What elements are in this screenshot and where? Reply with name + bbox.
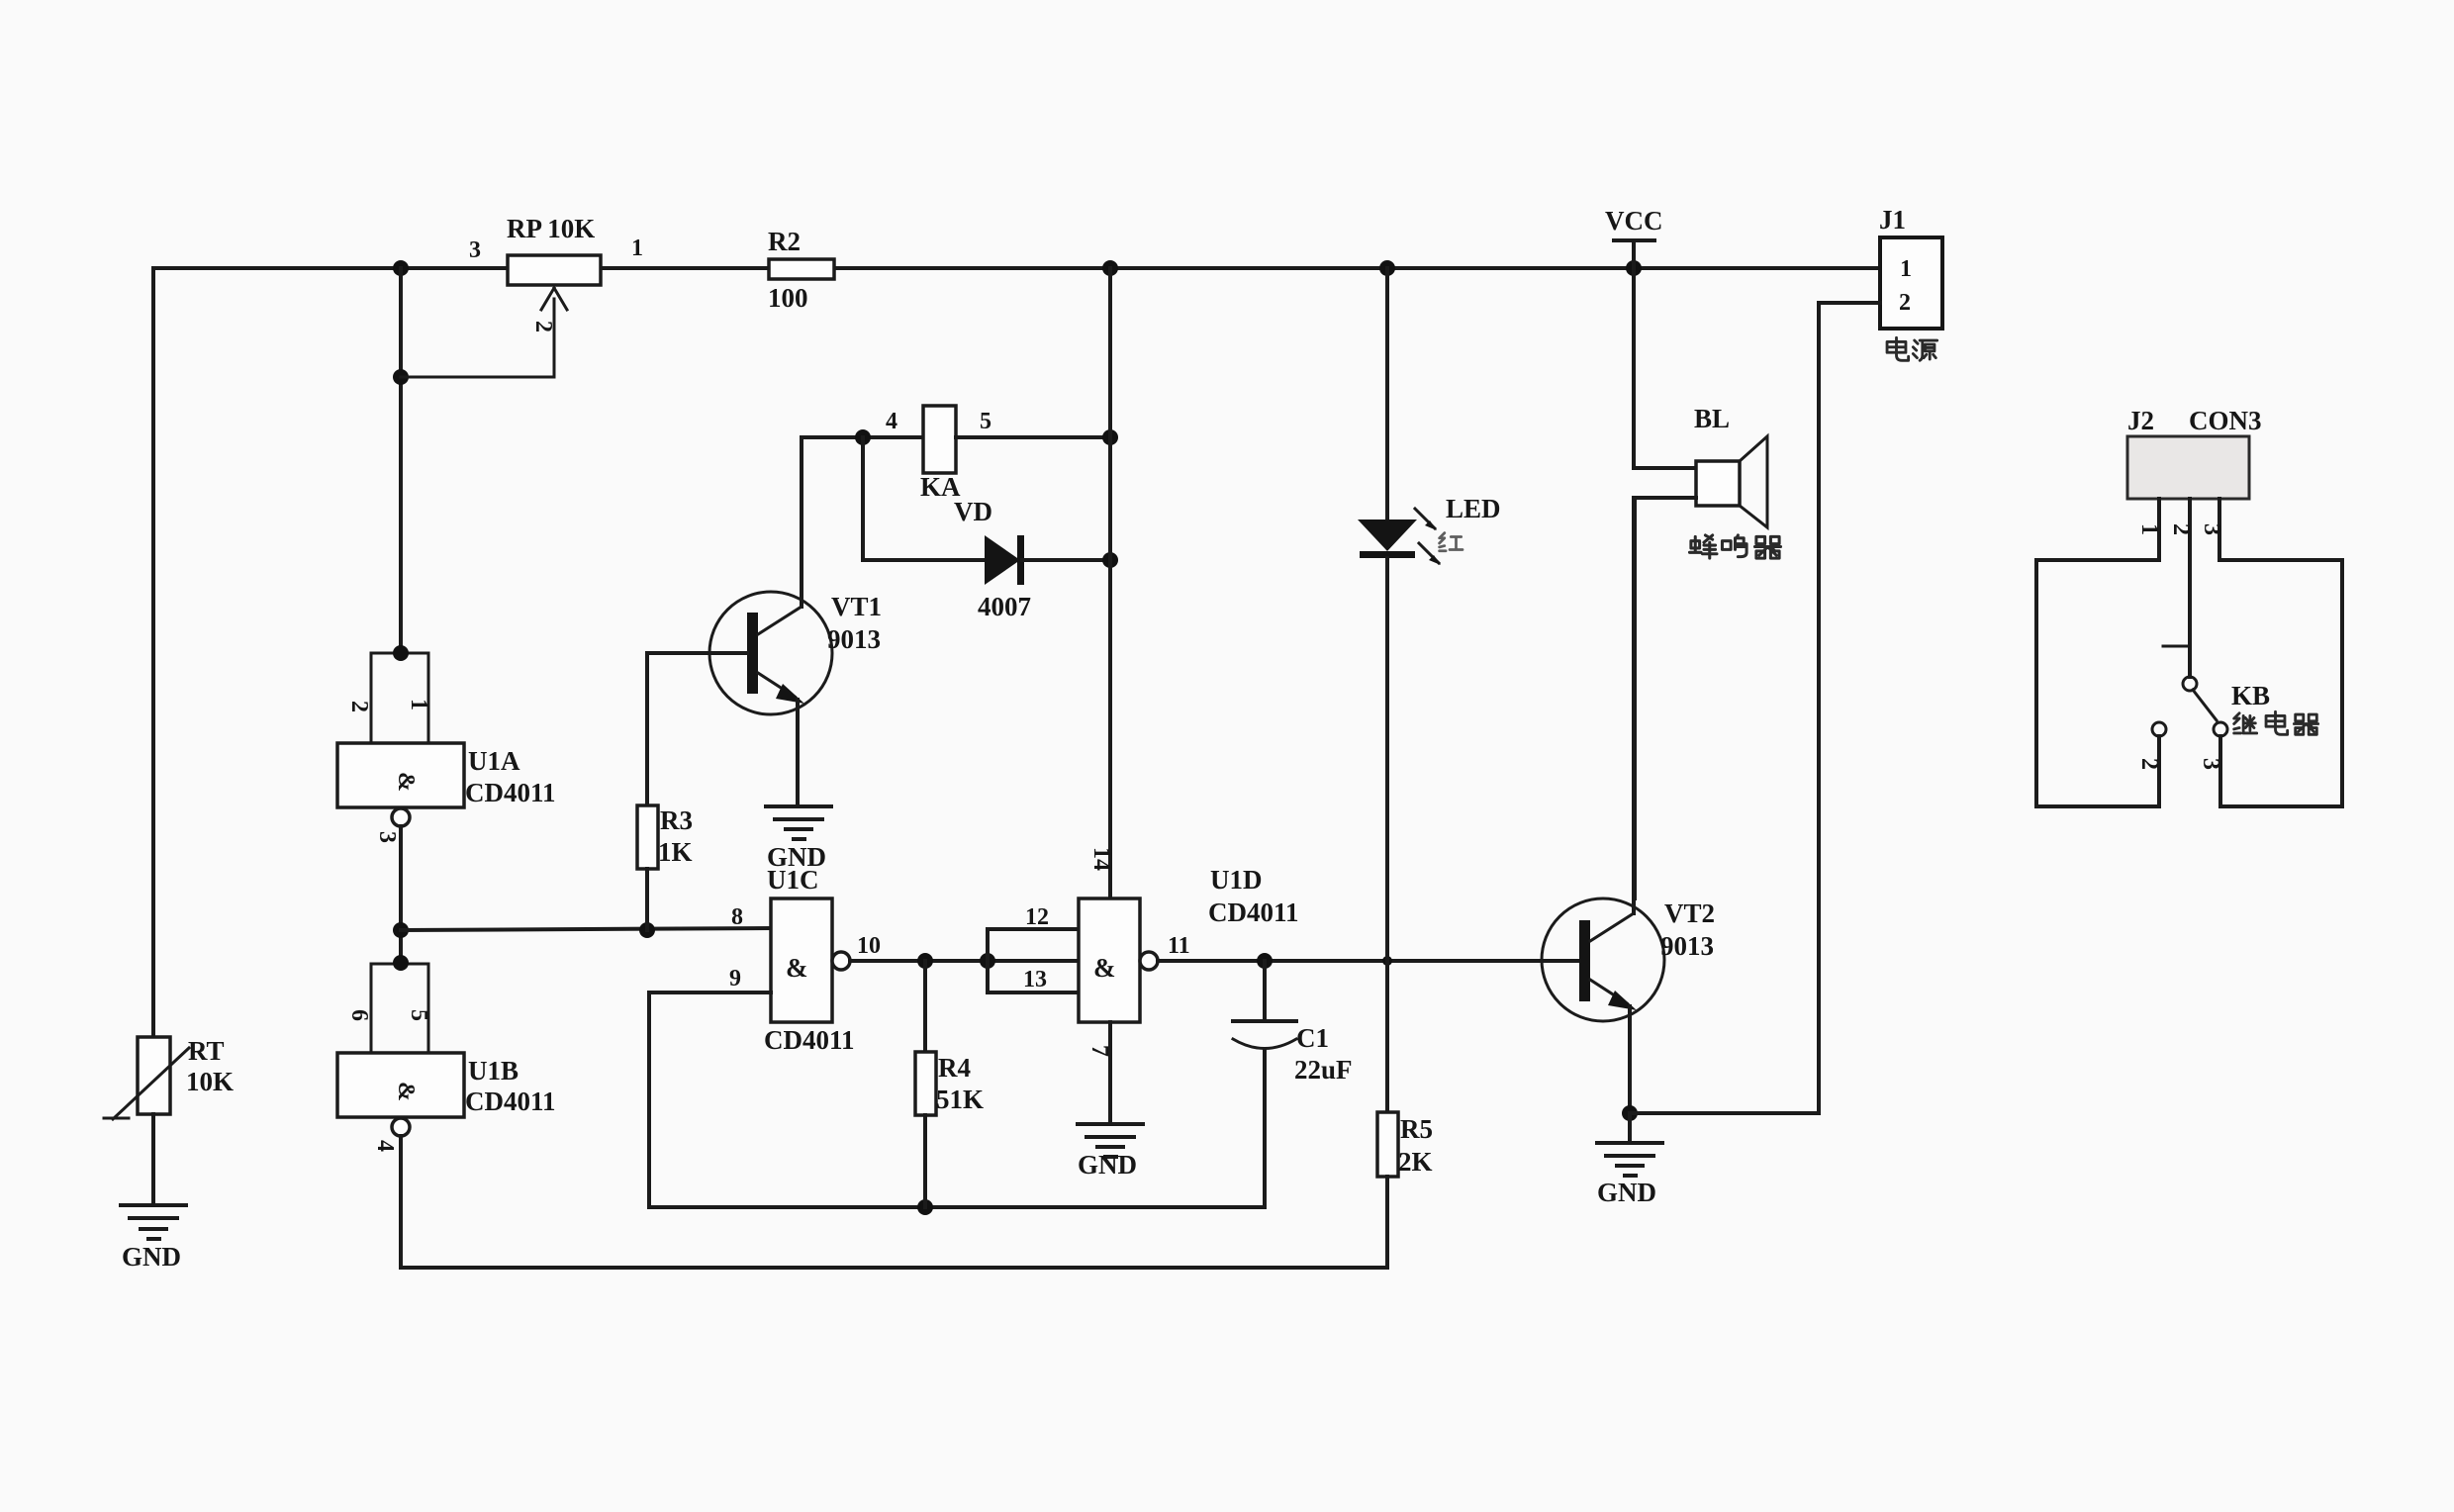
- node RP wiper junction: [393, 369, 409, 385]
- svg-text:3: 3: [374, 831, 400, 843]
- svg-text:22uF: 22uF: [1294, 1055, 1353, 1085]
- node U1A out row: [393, 922, 409, 938]
- wire J2 pin3 stub: [2218, 499, 2221, 560]
- wire pin10 row: [850, 959, 1079, 963]
- svg-text:2: 2: [2168, 523, 2194, 535]
- svg-text:3: 3: [2198, 758, 2223, 770]
- buzzer BL: [1694, 404, 1767, 527]
- resistor R3 1K: [637, 653, 693, 930]
- connector J1 (power): [1879, 205, 1942, 329]
- wire KB outer loop right: [2219, 560, 2342, 806]
- NAND gate U1D CD4011: [1079, 847, 1299, 1057]
- label red (hong): [1440, 533, 1463, 551]
- svg-text:6: 6: [346, 1009, 372, 1021]
- label relay (jidianqi): [2234, 711, 2318, 734]
- svg-text:2: 2: [530, 321, 556, 332]
- wire diode branch: [863, 437, 985, 560]
- svg-text:1: 1: [406, 699, 431, 710]
- node rail-RP branch: [393, 260, 409, 276]
- wire bottom U1B out to R5: [401, 1136, 1387, 1268]
- svg-text:CD4011: CD4011: [465, 778, 556, 807]
- node R4 bottom: [917, 1199, 933, 1215]
- svg-text:J1: J1: [1879, 205, 1906, 235]
- svg-text:2: 2: [1899, 290, 1911, 316]
- svg-text:RP 10K: RP 10K: [507, 214, 595, 243]
- node pins12/13 connector: [980, 953, 995, 969]
- svg-text:1K: 1K: [658, 837, 693, 867]
- svg-text:VD: VD: [954, 497, 992, 526]
- svg-text:1: 1: [2136, 523, 2162, 535]
- svg-text:RT: RT: [188, 1036, 225, 1066]
- svg-text:VCC: VCC: [1605, 206, 1663, 236]
- relay coil KA: [886, 406, 992, 526]
- svg-text:1: 1: [631, 236, 643, 261]
- node VT2 emitter junction: [1622, 1105, 1638, 1121]
- wire left rail down to RT: [151, 268, 155, 1037]
- svg-text:4007: 4007: [978, 592, 1031, 621]
- svg-text:13: 13: [1023, 967, 1047, 992]
- wire KB outer loop left: [2036, 560, 2159, 806]
- svg-text:100: 100: [768, 283, 808, 313]
- diode VD 4007: [978, 535, 1110, 621]
- node rail-VCC branch: [1626, 260, 1642, 276]
- wire pin9 feedback: [649, 992, 1265, 1207]
- svg-text:U1D: U1D: [1210, 865, 1263, 895]
- svg-text:GND: GND: [1078, 1150, 1137, 1180]
- ground GND (RT): [121, 1205, 186, 1272]
- svg-text:&: &: [786, 953, 808, 983]
- svg-text:&: &: [393, 1082, 419, 1101]
- svg-text:R2: R2: [768, 227, 801, 256]
- svg-text:5: 5: [406, 1009, 431, 1021]
- svg-text:U1C: U1C: [767, 865, 819, 895]
- svg-text:51K: 51K: [936, 1085, 984, 1114]
- LED red indicator: [1358, 268, 1501, 1112]
- svg-text:14: 14: [1088, 847, 1114, 871]
- svg-text:9013: 9013: [827, 624, 881, 654]
- svg-text:8: 8: [731, 904, 743, 930]
- thermistor RT: [104, 1036, 234, 1119]
- ground GND (VT2): [1597, 1143, 1662, 1207]
- svg-text:CD4011: CD4011: [1208, 898, 1299, 927]
- svg-text:KB: KB: [2231, 681, 2270, 710]
- wire top VCC rail: [153, 266, 1880, 270]
- wire J2 pin2 stub (middle): [2188, 499, 2192, 677]
- wire U1A output down: [399, 826, 403, 962]
- svg-text:CON3: CON3: [2189, 406, 2262, 435]
- svg-text:10: 10: [857, 933, 881, 959]
- svg-text:BL: BL: [1694, 404, 1730, 433]
- node R4 top branch: [917, 953, 933, 969]
- svg-text:2: 2: [2136, 758, 2162, 770]
- node rail-KA/U1D branch: [1102, 260, 1118, 276]
- transistor VT1 9013: [647, 437, 882, 806]
- connector J2 CON3: [2127, 406, 2262, 499]
- svg-text:J2: J2: [2127, 406, 2154, 435]
- svg-text:R4: R4: [938, 1053, 971, 1083]
- resistor R4 51K: [915, 961, 984, 1207]
- svg-text:GND: GND: [1597, 1178, 1656, 1207]
- wire J2 pin1 stub: [2157, 499, 2161, 560]
- svg-text:&: &: [1093, 953, 1116, 983]
- node rail-LED branch: [1379, 260, 1395, 276]
- svg-text:C1: C1: [1296, 1023, 1329, 1053]
- svg-text:2: 2: [346, 701, 372, 712]
- wire emitter to ground: [1628, 1113, 1632, 1141]
- svg-text:5: 5: [980, 409, 991, 434]
- ground GND (U1D): [1078, 1124, 1143, 1180]
- label buzzer (fengmingqi): [1689, 535, 1780, 558]
- svg-text:12: 12: [1025, 904, 1049, 930]
- ground GND (VT1): [766, 806, 831, 872]
- svg-text:9: 9: [729, 966, 741, 992]
- svg-text:4: 4: [886, 409, 897, 434]
- resistor R2 100: [768, 227, 834, 313]
- label J1 power (dianyuan): [1887, 337, 1937, 360]
- node R3 bottom: [639, 922, 655, 938]
- wire pin8 row: [401, 928, 771, 930]
- wire U1D pin7 to ground: [1108, 1022, 1112, 1121]
- node KA pin4 branch: [855, 429, 871, 445]
- svg-text:1: 1: [1900, 256, 1912, 282]
- wire J1 pin2 down to emitter row: [1819, 303, 1880, 1113]
- svg-text:4: 4: [372, 1140, 398, 1152]
- svg-text:R5: R5: [1400, 1114, 1433, 1144]
- potentiometer RP 10K: [401, 214, 643, 377]
- relay switch KB: [2152, 646, 2270, 736]
- wire RP branch vertical: [399, 268, 403, 651]
- svg-text:&: &: [393, 772, 419, 792]
- svg-text:CD4011: CD4011: [465, 1087, 556, 1116]
- svg-text:GND: GND: [122, 1242, 181, 1272]
- node C1 branch: [1257, 953, 1273, 969]
- svg-text:U1A: U1A: [468, 746, 520, 776]
- capacitor C1 22uF: [1233, 961, 1353, 1207]
- NAND gate U1C CD4011: [729, 865, 855, 1055]
- wire pin11 row to VT2 base: [1158, 959, 1579, 963]
- wire KA pin5 to rail branch: [956, 435, 1110, 439]
- svg-text:11: 11: [1168, 933, 1190, 959]
- svg-text:3: 3: [2199, 523, 2224, 535]
- svg-text:2K: 2K: [1398, 1147, 1433, 1177]
- NAND gate U1B CD4011: [337, 955, 556, 1152]
- svg-text:R3: R3: [660, 805, 693, 835]
- transistor VT2 9013: [1542, 498, 1715, 1113]
- wire pins12/13 connector: [988, 904, 1079, 992]
- wire buzzer bottom to VT2 collector: [1635, 498, 1696, 898]
- svg-text:CD4011: CD4011: [764, 1025, 855, 1055]
- node KA5/rail: [1102, 429, 1118, 445]
- wire VCC branch to buzzer top: [1634, 268, 1696, 468]
- NAND gate U1A CD4011: [337, 645, 556, 843]
- wire RT to ground: [151, 1114, 155, 1203]
- svg-text:LED: LED: [1446, 494, 1501, 523]
- svg-text:VT1: VT1: [831, 592, 882, 621]
- wire KA row: [802, 435, 923, 439]
- node diode cathode / rail branch: [1102, 552, 1118, 568]
- svg-text:U1B: U1B: [468, 1056, 519, 1086]
- wire emitter junction to J1 pin2 riser: [1630, 1111, 1819, 1115]
- svg-text:9013: 9013: [1660, 931, 1714, 961]
- wire rail branch to U1D pin14: [1108, 268, 1112, 898]
- resistor R5 2K: [1377, 1112, 1433, 1177]
- power VCC symbol: [1605, 206, 1663, 268]
- svg-text:3: 3: [469, 237, 481, 263]
- svg-text:10K: 10K: [186, 1067, 234, 1096]
- node LED line crossing: [1382, 956, 1392, 966]
- svg-text:VT2: VT2: [1664, 898, 1715, 928]
